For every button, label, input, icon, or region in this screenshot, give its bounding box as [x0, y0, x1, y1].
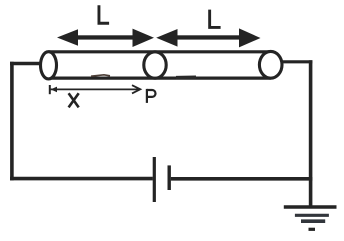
- ground bar 4: [309, 228, 316, 231]
- dimension arrow L left shaft: [74, 35, 136, 39]
- ground bar 3: [301, 219, 325, 223]
- ground bar 1: [284, 205, 337, 209]
- tube top line: [49, 50, 271, 53]
- wire top-left horizontal: [10, 62, 42, 65]
- x-dimension shaft: [51, 88, 139, 90]
- x-dimension right arrowhead: [132, 85, 140, 93]
- x-dimension tick: [49, 85, 51, 94]
- tube left end-cap ellipse: [41, 52, 57, 79]
- ground bar 2: [295, 214, 329, 217]
- label L (left span): [98, 5, 110, 25]
- wire right vertical: [309, 60, 313, 207]
- tube middle end-cap ellipse: [144, 52, 166, 78]
- battery B1 short plate: [167, 165, 170, 190]
- dimension arrow L right shaft: [176, 35, 242, 39]
- wire left vertical: [10, 62, 14, 181]
- dimension arrow L right head-left: [156, 29, 177, 47]
- x-dimension left arrowhead: [51, 87, 57, 93]
- battery B1 long plate: [153, 157, 156, 202]
- wire bottom-right: [171, 177, 313, 181]
- smudge mark on bottom line: [91, 75, 110, 76]
- tube right end-cap ellipse: [259, 51, 282, 78]
- label L (right span): [208, 10, 220, 29]
- wire bottom-left: [10, 177, 153, 181]
- smudge blob on bottom line: [176, 75, 196, 79]
- dimension arrow L left head-right: [133, 29, 155, 47]
- label x: [69, 93, 79, 107]
- label P (point P): [147, 89, 156, 103]
- dimension arrow L right head-right: [239, 28, 261, 47]
- wire top-right horizontal: [281, 60, 312, 63]
- tube bottom line: [49, 76, 271, 79]
- dimension arrow L left head-left: [57, 29, 78, 46]
